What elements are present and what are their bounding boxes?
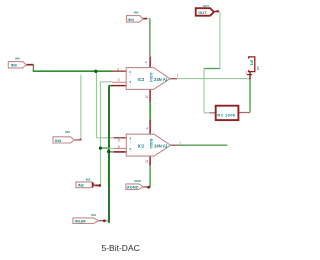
svg-text:1: 1	[245, 71, 247, 75]
svg-text:IN3: IN3	[55, 138, 62, 143]
svg-text:IN1(M: IN1(M	[75, 219, 87, 224]
svg-text:JP1: JP1	[250, 60, 254, 66]
svg-text:7: 7	[179, 142, 181, 146]
svg-text:5: 5	[118, 139, 120, 143]
svg-text:IN0: IN0	[15, 56, 20, 60]
svg-text:OUT: OUT	[198, 10, 207, 15]
svg-text:5-Bit-DAC: 5-Bit-DAC	[102, 243, 140, 253]
svg-text:1: 1	[177, 73, 179, 77]
svg-text:3: 3	[118, 78, 120, 82]
svg-text:IN4: IN4	[128, 17, 135, 22]
svg-text:IN2: IN2	[78, 182, 85, 187]
svg-text:4: 4	[145, 60, 147, 64]
svg-text:OUT: OUT	[203, 4, 210, 8]
svg-text:IN2: IN2	[86, 177, 91, 181]
svg-text:IN1: IN1	[91, 213, 96, 217]
svg-text:GND: GND	[134, 179, 142, 183]
svg-text:AGND: AGND	[127, 185, 139, 190]
svg-text:R2 100k: R2 100k	[217, 112, 236, 117]
svg-text:2: 2	[117, 67, 119, 71]
svg-text:IN3: IN3	[65, 130, 70, 134]
svg-text:6: 6	[118, 145, 120, 149]
svg-text:IC2: IC2	[138, 77, 145, 82]
svg-text:4: 4	[146, 127, 148, 131]
svg-text:IC2: IC2	[138, 144, 145, 149]
svg-text:11: 11	[145, 95, 149, 99]
svg-text:IN4: IN4	[134, 10, 139, 14]
svg-text:11: 11	[145, 160, 149, 164]
svg-text:24N A): 24N A)	[154, 77, 168, 82]
svg-text:IN0: IN0	[11, 63, 18, 68]
svg-text:24N A): 24N A)	[154, 144, 168, 149]
svg-text:1: 1	[257, 66, 260, 71]
